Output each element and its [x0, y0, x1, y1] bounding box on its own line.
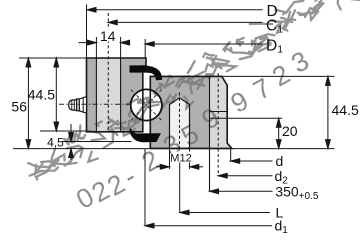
nipple hex inner line: [82, 98, 84, 113]
bottom seal: [129, 128, 161, 142]
svg-text:56: 56: [11, 99, 27, 115]
dim d1: [145, 225, 272, 227]
d1 extension below ring: [144, 149, 146, 226]
dim 4,5 lower arrow: [70, 149, 72, 160]
dim 20: [278, 118, 280, 148]
M12 tapped hole outline: [170, 98, 190, 149]
ball fill: [131, 89, 162, 120]
dim 56: [27, 58, 29, 149]
dim 44.5 right: [327, 76, 329, 148]
top-left horizontal reference: [19, 57, 87, 59]
20 top reference line: [210, 117, 283, 119]
dim 44.5 left: [55, 58, 57, 131]
ball diagonal centerline 1: [131, 90, 162, 121]
svg-text:20: 20: [282, 123, 298, 139]
ball outline: [131, 89, 162, 120]
M12 hole fill: [170, 98, 190, 149]
svg-text:44.5: 44.5: [28, 87, 55, 103]
svg-text:M12: M12: [170, 153, 191, 165]
M12 hole right edge extension: [189, 149, 191, 169]
dim C1: [108, 21, 262, 23]
M12 hole left edge extension: [169, 149, 171, 169]
gear tooth band fill: [210, 76, 232, 148]
D1 extension above ring: [144, 39, 146, 58]
nipple centerline: [59, 103, 131, 105]
inner ring (right) fill: [150, 76, 232, 148]
left ring bolt hole centerline: [107, 13, 109, 132]
ball diagonal centerline 2: [131, 90, 162, 121]
bolt hole edge right: [120, 58, 122, 132]
nipple head lines: [71, 100, 73, 109]
watermark phone number 022 diagonal: [71, 45, 314, 215]
svg-text:4,5: 4,5: [47, 136, 64, 150]
d extension: [230, 149, 232, 162]
dim M12 left arrow: [156, 166, 169, 168]
top seal: [130, 65, 163, 80]
left ring bottom reference: [40, 130, 87, 132]
left ring OD extension up: [86, 5, 88, 59]
dim L: [180, 212, 270, 214]
svg-text:d: d: [276, 153, 284, 169]
dim d: [231, 160, 273, 162]
bolt hole edge left: [95, 58, 97, 132]
14 dim extension right: [120, 37, 122, 58]
label M12: [172, 152, 192, 163]
tooth band inner line: [210, 111, 228, 113]
dim d2: [218, 175, 272, 177]
long bottom reference line: [13, 148, 335, 150]
svg-text:14: 14: [100, 28, 116, 44]
watermark chinese character scribble diagonal: [24, 0, 360, 186]
bolt hole strip fill: [96, 59, 120, 132]
dim 14 right arrow: [121, 42, 130, 44]
14 dim extension left: [95, 37, 97, 58]
outer ring (left) fill: [87, 58, 147, 132]
4,5 upper reference line: [62, 141, 132, 143]
gear pitch line (dashed): [217, 73, 219, 177]
dim D1: [145, 43, 262, 45]
grease nipple: [69, 97, 87, 114]
outer ring (left) outline: [87, 58, 147, 132]
M12 hole centerline: [179, 93, 181, 153]
top-right horizontal reference: [150, 75, 334, 77]
dimension lines & arrows: [26, 7, 330, 228]
dim 4,5 upper arrow: [70, 124, 72, 142]
dim 350: [210, 190, 273, 192]
label 14: [99, 30, 117, 42]
dim M12 right arrow: [190, 166, 203, 168]
svg-text:44.5: 44.5: [332, 102, 359, 118]
inner ring (right) outline: [150, 76, 232, 148]
tooth root line: [209, 76, 211, 191]
dim D: [87, 9, 263, 11]
dim 14 left arrow: [79, 42, 97, 44]
